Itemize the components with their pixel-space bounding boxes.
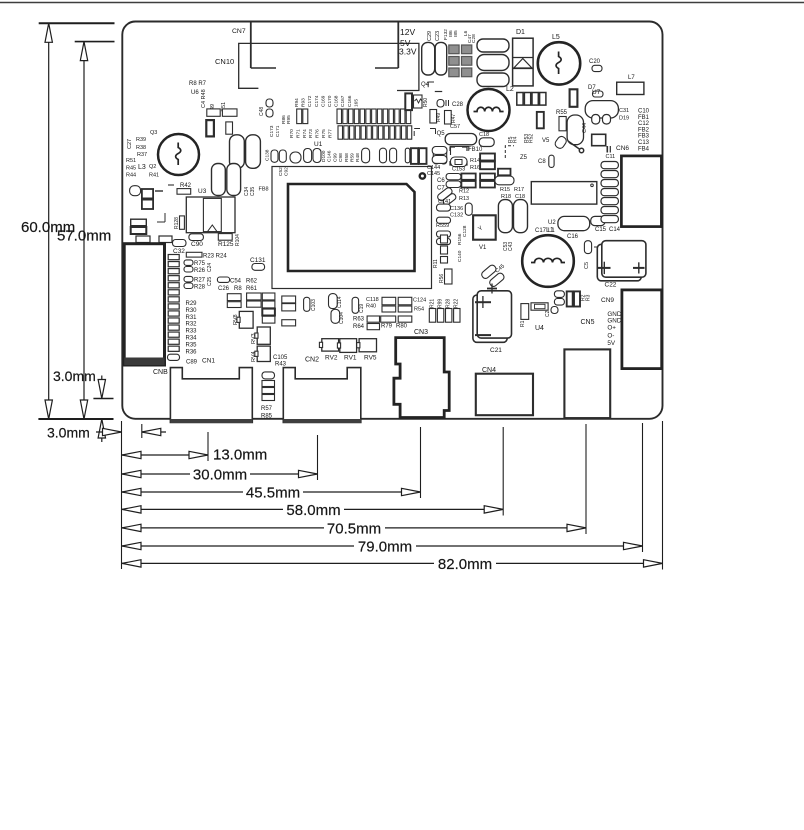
svg-text:C8: C8 (538, 159, 546, 165)
svg-text:R77: R77 (327, 129, 333, 138)
svg-text:C24: C24 (207, 263, 213, 272)
dim 79.0mm (122, 545, 643, 547)
svg-text:R57: R57 (261, 406, 273, 412)
connector CN5 body (564, 349, 610, 418)
svg-text:R93: R93 (301, 98, 307, 107)
svg-text:C31: C31 (619, 108, 629, 114)
svg-text:C173: C173 (269, 125, 275, 137)
svg-text:C98: C98 (338, 153, 344, 162)
svg-text:C27: C27 (127, 139, 133, 149)
pad with inner (451, 157, 468, 167)
extension line 45.5mm (420, 427, 422, 498)
connector CN6 pads (601, 162, 618, 169)
bracket pad square (450, 147, 467, 165)
svg-text:R75: R75 (194, 261, 206, 267)
svg-text:RV1: RV1 (344, 355, 357, 362)
pad cluster b (247, 293, 262, 300)
svg-text:CNB: CNB (153, 369, 168, 376)
svg-text:R47: R47 (451, 114, 457, 123)
svg-text:FB8: FB8 (259, 187, 269, 193)
resistor R23 R24 pads (186, 252, 202, 257)
pads left pair (432, 147, 447, 155)
connector CN1 bottom bar (170, 419, 252, 423)
pads R559 (437, 217, 451, 223)
svg-text:R8: R8 (234, 286, 242, 292)
capacitor C11a (437, 100, 444, 108)
capacitor C32 (173, 240, 187, 247)
svg-text:C52: C52 (278, 167, 284, 176)
svg-text:R22: R22 (454, 299, 460, 308)
dim datum line bottom (38, 418, 113, 420)
transistor Q4 bracket (427, 82, 429, 87)
svg-text:C5: C5 (584, 262, 590, 269)
capacitor row3 d (362, 148, 370, 163)
svg-text:C28: C28 (452, 102, 464, 108)
trimmer RV2 (322, 339, 339, 351)
svg-text:R26: R26 (194, 268, 206, 274)
svg-text:R42: R42 (180, 183, 192, 189)
trimmer RV4 (257, 346, 270, 361)
trimmer RV5 (359, 339, 376, 352)
IC U1 pin1 dot (420, 173, 425, 178)
capacitor C54 (217, 277, 229, 282)
resistor row 2 (338, 126, 343, 139)
svg-text:C171: C171 (275, 125, 281, 137)
crystal V1 (473, 215, 496, 239)
svg-text:RV8: RV8 (233, 314, 239, 325)
pad single thick (498, 169, 511, 176)
svg-text:C14: C14 (609, 227, 621, 233)
svg-text:L1: L1 (548, 228, 555, 234)
svg-text:C16: C16 (567, 234, 579, 240)
connector CN8 pin pads (168, 255, 179, 260)
connector CN10 outline (239, 43, 419, 90)
svg-text:58.0mm: 58.0mm (286, 502, 340, 519)
svg-text:C12: C12 (638, 121, 650, 127)
svg-text:U2: U2 (548, 220, 556, 226)
inductor L3 (158, 134, 199, 175)
svg-text:FB4: FB4 (638, 146, 650, 152)
svg-text:R3: R3 (586, 294, 592, 301)
regulator U3 outer (186, 197, 235, 233)
resistor R125 (218, 234, 232, 241)
diode D5 (554, 135, 568, 150)
svg-text:C6: C6 (437, 178, 445, 184)
pad below CN8 pins (168, 354, 180, 360)
svg-text:R71: R71 (295, 129, 301, 138)
capacitor row3 b (290, 152, 301, 163)
capacitor C29 (422, 42, 435, 75)
dim 82.0mm (122, 562, 663, 564)
svg-text:57.0mm: 57.0mm (57, 228, 111, 245)
IC U1 body (288, 184, 415, 271)
svg-text:C23: C23 (435, 31, 441, 41)
svg-text:R16: R16 (470, 165, 480, 171)
svg-text:3.3V: 3.3V (399, 47, 417, 57)
svg-text:CN6: CN6 (616, 145, 629, 152)
capacitor row3 f (405, 148, 410, 163)
capacitor C2 (551, 307, 558, 314)
capacitor C23 (435, 42, 447, 75)
svg-text:C136: C136 (450, 206, 463, 212)
inductor L1 big (522, 235, 574, 287)
ic U7 (585, 101, 618, 118)
capacitor C21 body (473, 295, 507, 342)
svg-text:C19: C19 (359, 304, 365, 313)
ferrite pad block (449, 45, 459, 54)
svg-text:CN10: CN10 (215, 57, 234, 66)
pads R79 R80 (381, 316, 396, 322)
svg-text:C43: C43 (508, 242, 514, 251)
dim 58.0mm (122, 508, 503, 510)
svg-text:R23 R24: R23 R24 (203, 254, 227, 260)
diode D1 (513, 38, 534, 86)
bracket FB10 (451, 147, 469, 156)
svg-text:C89: C89 (186, 360, 198, 366)
svg-text:C168: C168 (334, 95, 340, 107)
svg-text:RV4: RV4 (251, 351, 257, 362)
svg-text:45.5mm: 45.5mm (246, 485, 300, 502)
capacitor C5 (584, 241, 591, 254)
svg-text:3.0mm: 3.0mm (47, 425, 90, 441)
resistor R47 (445, 111, 452, 125)
trimmer RV3 (257, 327, 270, 344)
left edge pads group A (130, 186, 141, 196)
svg-text:FB3: FB3 (638, 134, 650, 140)
extension line 79.0mm (642, 423, 644, 552)
capacitor row 1 (337, 109, 342, 124)
dim 3.0mm tick line (93, 398, 113, 400)
svg-text:C26: C26 (218, 286, 230, 292)
capacitor C103 (304, 297, 310, 311)
svg-text:CN3: CN3 (414, 329, 428, 336)
svg-text:L7: L7 (628, 75, 635, 81)
transistor Q5 bracket (413, 131, 415, 136)
svg-text:R8 R7: R8 R7 (189, 81, 207, 87)
svg-text:R31: R31 (186, 315, 198, 321)
connector CN8 (124, 244, 164, 365)
connector CN9 (622, 290, 662, 369)
svg-text:C118: C118 (366, 297, 379, 303)
svg-text:R94: R94 (294, 98, 300, 107)
capacitor D5b (549, 155, 554, 167)
svg-text:FB1: FB1 (638, 115, 650, 121)
svg-text:C92: C92 (284, 167, 290, 176)
svg-text:C22: C22 (605, 282, 617, 289)
connector CN2 bottom bar (283, 419, 361, 423)
dim 30.0mm (122, 473, 318, 475)
svg-text:RV2: RV2 (325, 355, 338, 362)
capacitor C51 body (226, 122, 233, 134)
extension line 13.0mm (207, 432, 209, 461)
svg-text:R70: R70 (289, 129, 295, 138)
pad near C136 (437, 204, 451, 211)
svg-text:R30: R30 (186, 308, 198, 314)
svg-text:C90: C90 (191, 241, 203, 248)
svg-text:R32: R32 (186, 322, 198, 328)
capacitor top pair (570, 89, 578, 107)
capacitor bank C34 C35 upper (230, 135, 245, 169)
resistor R128 (180, 216, 185, 229)
resistor R56 (445, 269, 453, 284)
svg-text:C145: C145 (427, 171, 440, 177)
svg-text:R45: R45 (126, 166, 136, 172)
svg-text:U7: U7 (592, 89, 601, 96)
resistor pads near U6 (207, 109, 220, 116)
svg-text:L2: L2 (506, 86, 514, 93)
transistor U6 body (206, 120, 214, 136)
svg-text:C48: C48 (259, 107, 265, 116)
svg-text:C57: C57 (450, 124, 460, 130)
svg-text:Q5: Q5 (437, 131, 446, 137)
svg-text:C128: C128 (462, 225, 468, 237)
svg-text:C166: C166 (347, 95, 353, 107)
trimmer RV8 (239, 311, 253, 328)
svg-text:R48: R48 (355, 153, 361, 162)
capacitor C22 polarity (598, 267, 611, 269)
dim 3.0mm upper arrows (101, 376, 103, 399)
svg-text:V1: V1 (479, 245, 487, 251)
svg-text:R559: R559 (436, 223, 449, 229)
svg-text:R43: R43 (275, 362, 287, 368)
svg-text:R95: R95 (286, 115, 292, 124)
board outline (122, 22, 662, 419)
extension line board left edge (121, 421, 123, 569)
capacitor row3 g (433, 148, 439, 164)
svg-text:R39: R39 (136, 137, 146, 143)
left edge pads group C (136, 236, 150, 243)
svg-text:C103: C103 (311, 299, 317, 311)
svg-text:D100: D100 (321, 150, 327, 162)
svg-text:C20: C20 (589, 59, 601, 65)
capacitor mid v (537, 112, 544, 128)
svg-text:R41: R41 (149, 173, 159, 179)
inductor L5 (538, 42, 580, 84)
dim datum line top (connector top) (75, 41, 115, 43)
connector CN1 body (170, 368, 252, 423)
dim 57.0mm leader (83, 42, 85, 419)
resistor R50 (414, 95, 423, 108)
capacitor C45 tilted pair (480, 264, 497, 280)
svg-text:C4 R48: C4 R48 (201, 89, 207, 108)
svg-text:30.0mm: 30.0mm (193, 467, 247, 484)
svg-text:R79: R79 (381, 324, 393, 330)
capacitor C141 tilted (436, 187, 453, 202)
svg-text:R73: R73 (308, 129, 314, 138)
svg-text:R58: R58 (344, 153, 350, 162)
wire stub left (157, 221, 165, 223)
capacitor C21 polarity (487, 288, 497, 290)
svg-text:C28: C28 (471, 34, 477, 43)
resistor R1 (521, 304, 529, 320)
svg-text:RV3: RV3 (251, 333, 257, 344)
pads below R43 (262, 372, 275, 379)
svg-text:U4: U4 (535, 325, 544, 332)
svg-text:C25: C25 (207, 277, 213, 286)
svg-text:C44: C44 (582, 123, 588, 133)
svg-text:5V: 5V (607, 340, 616, 347)
svg-text:FB2: FB2 (638, 127, 650, 133)
svg-text:R29: R29 (186, 301, 198, 307)
pad cluster c (262, 293, 275, 300)
svg-text:R28: R28 (194, 285, 206, 291)
capacitor C18 wide (445, 134, 476, 145)
capacitor C30 (405, 93, 412, 110)
svg-text:R12: R12 (459, 189, 469, 195)
svg-text:C29: C29 (427, 31, 433, 41)
svg-text:Z5: Z5 (520, 155, 528, 161)
svg-text:C99: C99 (332, 153, 338, 162)
trimmer RV1 (340, 339, 357, 353)
svg-text:FB10: FB10 (468, 147, 483, 153)
resistor R49 (430, 110, 437, 124)
svg-text:CN5: CN5 (581, 319, 595, 326)
resistor bank R21-R22 (429, 309, 435, 323)
svg-text:C15: C15 (595, 227, 607, 233)
extension line 82.0mm (662, 421, 664, 570)
svg-text:R11: R11 (433, 259, 439, 268)
pads C25 (184, 276, 193, 282)
svg-text:R80: R80 (396, 324, 408, 330)
svg-text:O-: O- (607, 333, 614, 340)
thick pads R14 (480, 154, 495, 161)
pads C124 (398, 297, 412, 305)
svg-text:Q2: Q2 (149, 164, 156, 170)
connector CN4 body (476, 374, 533, 416)
svg-text:CN1: CN1 (202, 358, 215, 365)
svg-text:R15: R15 (500, 187, 510, 193)
pad cluster a (227, 294, 241, 301)
svg-text:70.5mm: 70.5mm (327, 520, 381, 537)
svg-text:R14: R14 (470, 158, 480, 164)
capacitor C47 stack (477, 39, 509, 52)
capacitor bank C34 C35 lower (212, 164, 226, 196)
svg-text:13.0mm: 13.0mm (213, 447, 267, 464)
svg-text:CN9: CN9 (601, 297, 614, 304)
svg-text:C132: C132 (450, 213, 463, 219)
svg-text:12V: 12V (400, 27, 415, 37)
dim datum line top (board top) (39, 22, 115, 24)
svg-text:Q4: Q4 (421, 82, 430, 88)
svg-text:R50: R50 (423, 98, 429, 107)
resistor R42 (177, 189, 191, 195)
tall cap pair (498, 200, 512, 233)
svg-text:R54: R54 (414, 307, 424, 313)
svg-text:R37: R37 (137, 152, 147, 158)
svg-text:L3: L3 (138, 164, 146, 171)
dashed bracket (505, 146, 514, 158)
svg-text:GND: GND (607, 318, 621, 325)
svg-text:U1: U1 (314, 141, 323, 148)
svg-text:C21: C21 (490, 347, 502, 354)
capacitor C114 (329, 294, 338, 309)
capacitor row3 thick pair (411, 148, 418, 164)
svg-text:R63: R63 (353, 317, 365, 323)
svg-text:82.0mm: 82.0mm (438, 556, 492, 573)
svg-text:R128: R128 (174, 217, 180, 229)
svg-text:R35: R35 (186, 342, 198, 348)
resistor pads C118 (382, 297, 396, 305)
inductor L7 (617, 82, 644, 94)
pads pair small (554, 291, 564, 298)
svg-text:C153: C153 (452, 167, 465, 173)
svg-text:C172: C172 (307, 95, 313, 107)
svg-text:R59: R59 (350, 153, 356, 162)
svg-text:R75: R75 (321, 129, 327, 138)
dim 60.0mm leader (48, 23, 50, 419)
svg-text:C170: C170 (327, 95, 333, 107)
svg-text:R1: R1 (520, 320, 526, 327)
dim 13.0mm (122, 454, 208, 456)
svg-text:V5: V5 (542, 138, 550, 144)
svg-text:R62: R62 (246, 279, 258, 285)
svg-text:R4: R4 (513, 136, 519, 143)
connector CN2 body (283, 368, 361, 423)
IC U1 outer boundary (272, 167, 432, 289)
connector CN7 (250, 23, 252, 69)
svg-text:C11: C11 (606, 154, 616, 160)
svg-text:C10: C10 (638, 109, 650, 115)
capacitor row pair left (297, 109, 302, 124)
regulator U3 inner (203, 198, 221, 231)
capacitor C22 body (597, 244, 641, 280)
left edge pads group B (131, 219, 147, 226)
svg-text:C54: C54 (230, 279, 242, 285)
svg-text:R44: R44 (126, 173, 136, 179)
svg-text:C167: C167 (340, 95, 346, 107)
inductor L2 pad slats (517, 93, 523, 106)
top rule line (0, 2, 804, 4)
svg-text:R51: R51 (126, 158, 136, 164)
dim 45.5mm (122, 491, 421, 493)
connector CN6 (621, 156, 661, 227)
svg-text:U6: U6 (191, 90, 199, 96)
svg-text:C17: C17 (535, 228, 547, 234)
svg-text:C124: C124 (413, 298, 426, 304)
pad stadium right (495, 176, 514, 185)
svg-text:D19: D19 (619, 116, 629, 122)
resistor with inner (531, 303, 548, 310)
svg-text:C105: C105 (273, 355, 288, 361)
svg-text:R28: R28 (446, 299, 452, 308)
svg-text:R38: R38 (136, 145, 146, 151)
svg-text:R33: R33 (186, 329, 198, 335)
capacitor C11 thick (592, 134, 606, 145)
svg-text:C104: C104 (339, 312, 345, 324)
svg-text:U3: U3 (198, 188, 207, 195)
svg-text:C35: C35 (250, 187, 256, 196)
svg-text:D1: D1 (516, 29, 525, 36)
dim 3.0mm bottom (96, 431, 122, 433)
svg-text:R61: R61 (246, 286, 258, 292)
svg-text:R40: R40 (366, 304, 376, 310)
svg-text:CN4: CN4 (482, 367, 496, 374)
extension line 58.0mm (502, 427, 504, 516)
svg-text:R21: R21 (430, 299, 436, 308)
svg-text:C18: C18 (479, 132, 489, 138)
svg-text:C140: C140 (457, 250, 463, 262)
pads R63 R64 (367, 316, 379, 322)
svg-text:C169: C169 (320, 95, 326, 107)
capacitor C104 (331, 309, 340, 323)
svg-text:R99: R99 (438, 299, 444, 308)
svg-text:R13: R13 (459, 196, 469, 202)
svg-text:C13: C13 (638, 140, 650, 146)
left col pads small (441, 235, 448, 243)
pad block 3x2 (446, 174, 461, 180)
connector CN3 body (394, 338, 449, 418)
svg-text:C2: C2 (545, 310, 551, 317)
